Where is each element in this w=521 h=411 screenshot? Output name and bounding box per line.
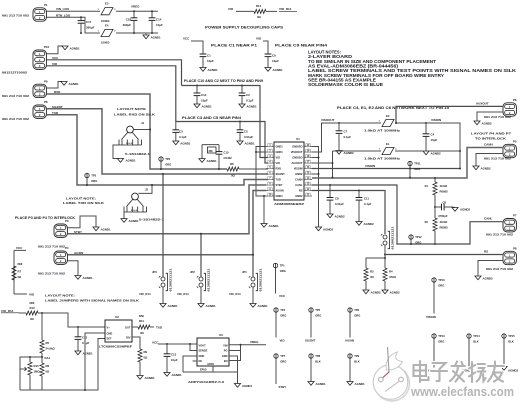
svg-text:AUXOUT: AUXOUT bbox=[476, 101, 489, 105]
wire bbox=[384, 281, 386, 290]
svg-text:GND: GND bbox=[199, 354, 205, 358]
ground AGND2 bbox=[363, 290, 369, 294]
svg-text:VISOIN: VISOIN bbox=[426, 315, 436, 319]
pin 13 U1 bbox=[304, 184, 312, 186]
svg-text:PLACE C10 AND C2 NEXT TO PIN2: PLACE C10 AND C2 NEXT TO PIN2 AND PIN9 bbox=[184, 79, 263, 83]
svg-text:GNDISO: GNDISO bbox=[292, 156, 302, 160]
svg-text:OUT: OUT bbox=[125, 325, 131, 329]
svg-text:AGND2: AGND2 bbox=[481, 166, 492, 170]
svg-text:POWER SUPPLY DECOUPLING CAPS: POWER SUPPLY DECOUPLING CAPS bbox=[205, 26, 284, 30]
ground AGND1 bbox=[250, 304, 256, 308]
svg-text:0.1μF: 0.1μF bbox=[364, 202, 372, 206]
test point TP14 bbox=[467, 334, 471, 338]
svg-text:5-1814832-1: 5-1814832-1 bbox=[125, 152, 151, 156]
wire bbox=[19, 312, 26, 314]
svg-text:VIO_R14: VIO_R14 bbox=[1, 309, 14, 313]
svg-text:P10: P10 bbox=[44, 45, 50, 49]
wire bbox=[47, 10, 101, 12]
svg-text:691 213 710 002: 691 213 710 002 bbox=[2, 13, 30, 17]
svg-text:C17: C17 bbox=[86, 20, 92, 24]
svg-text:PG: PG bbox=[224, 349, 228, 353]
wire RS to P8 bbox=[385, 254, 503, 256]
ground AGND2 bbox=[336, 151, 342, 155]
ground AGND1 bbox=[198, 304, 204, 308]
svg-text:691 213 710 002: 691 213 710 002 bbox=[484, 157, 512, 161]
ferrite bead E3 bbox=[101, 8, 113, 15]
svg-text:ORG: ORG bbox=[354, 314, 360, 318]
wire bbox=[150, 326, 154, 328]
ground AGND1 bbox=[261, 224, 267, 228]
test point TP3 bbox=[85, 173, 89, 177]
capacitor C17 bbox=[80, 17, 82, 20]
svg-text:BLK: BLK bbox=[315, 360, 321, 364]
svg-text:AGND2: AGND2 bbox=[431, 151, 442, 155]
svg-text:AUXOUT: AUXOUT bbox=[292, 161, 303, 165]
watermark CJK text bbox=[414, 361, 505, 382]
svg-text:JP3: JP3 bbox=[152, 270, 157, 274]
svg-text:VIN: VIN bbox=[223, 343, 227, 347]
watermark logo bbox=[373, 347, 409, 401]
test point TP4 bbox=[274, 308, 278, 312]
svg-text:DA1: DA1 bbox=[45, 356, 51, 360]
svg-text:ORG: ORG bbox=[280, 360, 286, 364]
connector P3 bbox=[54, 224, 67, 237]
svg-text:P5: P5 bbox=[513, 140, 517, 144]
wire bbox=[139, 362, 141, 376]
svg-text:AGND1: AGND1 bbox=[316, 382, 327, 386]
svg-text:VREG: VREG bbox=[250, 340, 259, 344]
connector P9 bbox=[33, 84, 46, 97]
svg-text:TP8: TP8 bbox=[315, 354, 320, 358]
svg-text:ORG: ORG bbox=[438, 340, 444, 344]
capacitor C5 bbox=[239, 121, 241, 123]
svg-text:61300211121: 61300211121 bbox=[208, 268, 211, 292]
ferrite bead E4 bbox=[101, 29, 113, 36]
wire bbox=[14, 293, 27, 295]
wire DIV pin bbox=[132, 337, 140, 349]
svg-text:U3: U3 bbox=[219, 333, 223, 337]
test point TP1 bbox=[273, 263, 277, 267]
svg-text:VIO_R14: VIO_R14 bbox=[229, 292, 241, 296]
pin 4 U1 bbox=[266, 162, 274, 164]
wire VISOIN rail bbox=[395, 123, 460, 169]
pin 11 U1 bbox=[304, 195, 312, 197]
svg-text:E4: E4 bbox=[105, 24, 109, 28]
pin 19 U1 bbox=[304, 151, 312, 153]
svg-text:VIO: VIO bbox=[276, 161, 280, 165]
ground AGND1 bbox=[234, 384, 240, 388]
svg-text:0.1μF: 0.1μF bbox=[344, 135, 352, 139]
svg-text:49.9Ω: 49.9Ω bbox=[440, 220, 448, 224]
svg-text:AGND1: AGND1 bbox=[247, 104, 258, 108]
svg-text:R9: R9 bbox=[144, 350, 148, 354]
resistor R2 bbox=[433, 218, 437, 231]
svg-text:CANH: CANH bbox=[484, 142, 493, 146]
test point TP6 bbox=[348, 308, 352, 312]
svg-text:C10: C10 bbox=[201, 93, 207, 97]
pin 12 U1 bbox=[304, 190, 312, 192]
resistor R5 bbox=[41, 313, 43, 340]
svg-text:U1: U1 bbox=[296, 137, 300, 141]
wire to ground bbox=[68, 261, 79, 276]
svg-text:C11: C11 bbox=[364, 196, 369, 200]
wire NC stub bbox=[193, 360, 198, 362]
svg-text:R14: R14 bbox=[256, 4, 262, 8]
resistor R7 bbox=[12, 266, 16, 280]
ground AGND1 bbox=[62, 46, 68, 50]
svg-text:VOUT: VOUT bbox=[199, 343, 207, 347]
svg-text:LAYOUT NOTE: LAYOUT NOTE bbox=[117, 107, 146, 111]
wire bbox=[384, 245, 386, 268]
wire bbox=[202, 144, 219, 146]
svg-text:10μF: 10μF bbox=[431, 138, 438, 142]
svg-text:ORG: ORG bbox=[415, 241, 421, 245]
svg-text:VIN_LDO: VIN_LDO bbox=[56, 7, 70, 11]
svg-text:VIO: VIO bbox=[228, 7, 234, 11]
ground AGND2 bbox=[473, 166, 479, 170]
wire bbox=[160, 161, 162, 169]
svg-text:10μF: 10μF bbox=[171, 358, 178, 362]
wire AUXIN bbox=[68, 191, 267, 255]
wire bbox=[113, 145, 119, 159]
svg-text:0.1μF: 0.1μF bbox=[82, 341, 90, 345]
pin 1 U1 bbox=[266, 146, 274, 148]
svg-text:691 213 710 002: 691 213 710 002 bbox=[2, 94, 30, 98]
wire CANL bbox=[312, 185, 503, 244]
svg-text:AUXIN: AUXIN bbox=[345, 338, 354, 342]
wire bbox=[434, 195, 436, 218]
svg-text:TXD: TXD bbox=[276, 178, 281, 182]
pin 6 U1 bbox=[266, 173, 274, 175]
ground AGND2 bbox=[474, 121, 480, 125]
svg-text:GND1: GND1 bbox=[276, 145, 284, 149]
capacitor C11 bbox=[358, 190, 360, 192]
wire CANH bus bbox=[312, 148, 503, 179]
wire bbox=[365, 281, 367, 290]
wire EPAD bbox=[212, 366, 214, 372]
svg-text:1.0kΩ AT 100MHz: 1.0kΩ AT 100MHz bbox=[364, 157, 401, 161]
jumper JP1 bbox=[252, 255, 254, 277]
svg-text:TP2: TP2 bbox=[165, 157, 170, 161]
svg-text:VISOOUT: VISOOUT bbox=[291, 150, 303, 154]
svg-text:C3: C3 bbox=[179, 129, 183, 133]
svg-text:R2: R2 bbox=[425, 220, 429, 224]
svg-text:R7: R7 bbox=[18, 270, 22, 274]
ground AGND1 bbox=[61, 82, 67, 86]
svg-text:ORG: ORG bbox=[280, 314, 286, 318]
svg-text:VIO_R14: VIO_R14 bbox=[139, 292, 151, 296]
svg-text:JP2: JP2 bbox=[190, 270, 195, 274]
wire J1 tap to RXD bbox=[133, 129, 150, 131]
svg-text:61300211121: 61300211121 bbox=[392, 226, 395, 250]
wire bbox=[252, 287, 254, 304]
capacitor C14 bbox=[151, 11, 153, 18]
svg-text:GNDISO: GNDISO bbox=[292, 145, 302, 149]
connector P4 bbox=[54, 251, 67, 264]
svg-text:VISOIN: VISOIN bbox=[365, 164, 375, 168]
pin 18 U1 bbox=[304, 157, 312, 159]
svg-text:49.9Ω: 49.9Ω bbox=[440, 184, 448, 188]
svg-text:R0805: R0805 bbox=[440, 225, 449, 229]
ground AGND1 bbox=[93, 227, 99, 231]
wire bbox=[410, 239, 412, 244]
pin 15 U1 bbox=[304, 173, 312, 175]
wire bbox=[275, 268, 277, 294]
svg-text:AGND1: AGND1 bbox=[83, 276, 94, 280]
pin 16 U1 bbox=[304, 168, 312, 170]
ground AGND1 bbox=[164, 373, 170, 377]
svg-text:691 213 710 002: 691 213 710 002 bbox=[486, 267, 514, 271]
svg-text:VIO: VIO bbox=[256, 37, 262, 41]
svg-text:TP7: TP7 bbox=[280, 354, 285, 358]
capacitor C3 bbox=[175, 122, 177, 130]
svg-text:www.elecfans.com: www.elecfans.com bbox=[410, 384, 514, 399]
ground AGND1 bbox=[200, 68, 206, 72]
svg-text:GND1: GND1 bbox=[276, 194, 284, 198]
svg-text:J2: J2 bbox=[145, 188, 149, 192]
wire PG EN tie bbox=[229, 350, 241, 352]
svg-text:C0402: C0402 bbox=[224, 156, 233, 160]
svg-text:DNI: DNI bbox=[18, 262, 23, 266]
wire bbox=[434, 231, 436, 244]
ground AGND1 bbox=[121, 219, 127, 223]
wire to ground bbox=[47, 46, 64, 54]
svg-text:BLK: BLK bbox=[508, 340, 514, 344]
svg-text:10μF: 10μF bbox=[207, 59, 214, 63]
svg-text:RXD: RXD bbox=[276, 167, 282, 171]
wire bbox=[14, 249, 26, 251]
svg-text:TP12: TP12 bbox=[415, 235, 422, 239]
svg-text:0.01μF: 0.01μF bbox=[244, 135, 253, 139]
svg-text:U2: U2 bbox=[115, 315, 119, 319]
svg-text:AGND1: AGND1 bbox=[269, 224, 280, 228]
pin 2 U1 bbox=[266, 151, 274, 153]
wire VISOIN to pin16 bbox=[312, 168, 460, 170]
capacitor C9 bbox=[265, 53, 272, 55]
wire bottom rail bbox=[20, 339, 105, 391]
connector P8 bbox=[33, 105, 46, 118]
svg-text:TXD: TXD bbox=[156, 326, 163, 330]
ground AGND1 bbox=[75, 351, 81, 355]
svg-text:EPAD: EPAD bbox=[208, 363, 215, 366]
connector P5 bbox=[503, 144, 516, 157]
svg-text:GND2: GND2 bbox=[295, 194, 303, 198]
wire bbox=[266, 10, 277, 12]
pin 3 U1 bbox=[266, 157, 274, 159]
svg-text:5-1814832-1: 5-1814832-1 bbox=[139, 217, 165, 221]
svg-text:R12: R12 bbox=[30, 306, 36, 310]
resistor R11 bbox=[132, 326, 138, 328]
svg-text:24.9kΩ: 24.9kΩ bbox=[46, 347, 56, 351]
svg-text:TP5: TP5 bbox=[315, 308, 320, 312]
svg-text:1.0kΩ AT 100MHz: 1.0kΩ AT 100MHz bbox=[364, 129, 401, 133]
svg-text:R1: R1 bbox=[425, 184, 429, 188]
ground AGND1 bbox=[239, 104, 245, 108]
test point TP5 bbox=[309, 308, 313, 312]
svg-text:AGND1: AGND1 bbox=[202, 104, 213, 108]
ground AGND1 bbox=[265, 68, 271, 72]
test point TP10 bbox=[432, 278, 436, 282]
svg-text:TP1: TP1 bbox=[280, 264, 285, 268]
svg-text:TP11: TP11 bbox=[414, 162, 421, 166]
resistor R4 bbox=[383, 268, 387, 281]
svg-text:R5: R5 bbox=[46, 341, 50, 345]
svg-text:1500Ω: 1500Ω bbox=[101, 41, 110, 45]
svg-text:C18: C18 bbox=[126, 17, 132, 21]
svg-text:AGND1: AGND1 bbox=[172, 373, 183, 377]
ground AGND1 bbox=[173, 141, 179, 145]
svg-text:R4: R4 bbox=[389, 270, 393, 274]
svg-text:DIV: DIV bbox=[126, 335, 131, 339]
svg-text:P7: P7 bbox=[513, 214, 517, 218]
wire VISOOUT riser bbox=[312, 123, 381, 152]
resistor R9 bbox=[138, 349, 142, 362]
svg-text:AGND2: AGND2 bbox=[460, 208, 471, 212]
ground AGND1 bbox=[194, 104, 200, 108]
svg-text:C13: C13 bbox=[171, 352, 177, 356]
svg-text:ORG: ORG bbox=[91, 179, 97, 183]
svg-text:TP9: TP9 bbox=[354, 354, 359, 358]
svg-text:C7: C7 bbox=[344, 129, 348, 133]
svg-text:VISOOUT: VISOOUT bbox=[321, 118, 335, 122]
capacitor C6 bbox=[434, 206, 436, 208]
svg-text:AGND1: AGND1 bbox=[70, 46, 81, 50]
pin 20 U1 bbox=[304, 146, 312, 148]
svg-text:VIO_R14: VIO_R14 bbox=[279, 7, 292, 11]
wire GND left bbox=[183, 356, 197, 372]
svg-text:CANH: CANH bbox=[295, 178, 303, 182]
capacitor C10 bbox=[196, 85, 198, 87]
svg-text:STBY: STBY bbox=[279, 385, 287, 389]
svg-text:AGND1: AGND1 bbox=[126, 159, 137, 163]
wire pin17 link bbox=[312, 162, 333, 164]
connector P1 bbox=[33, 8, 46, 21]
svg-text:R6: R6 bbox=[230, 162, 234, 166]
svg-text:61300211121: 61300211121 bbox=[260, 268, 263, 292]
svg-text:TP3: TP3 bbox=[91, 174, 96, 178]
wire bbox=[409, 166, 411, 178]
svg-text:E1: E1 bbox=[386, 142, 390, 146]
svg-text:P8: P8 bbox=[513, 247, 517, 251]
svg-text:AGND1: AGND1 bbox=[151, 35, 162, 39]
svg-text:AGND2: AGND2 bbox=[323, 227, 334, 231]
svg-text:C6: C6 bbox=[443, 201, 447, 205]
ground AGND2 bbox=[327, 214, 333, 218]
svg-text:LABEL RXD ON SILK: LABEL RXD ON SILK bbox=[114, 112, 156, 116]
wire to ground bbox=[478, 261, 503, 277]
svg-text:2 3 4 5: 2 3 4 5 bbox=[126, 142, 133, 145]
wire RS bbox=[312, 191, 385, 235]
ferrite bead E1 bbox=[333, 150, 382, 152]
svg-text:R0805: R0805 bbox=[440, 189, 449, 193]
svg-text:C14: C14 bbox=[156, 17, 162, 21]
wire bbox=[86, 178, 88, 185]
wire TXD bbox=[47, 115, 269, 185]
svg-text:AGND1: AGND1 bbox=[207, 159, 218, 163]
svg-text:TP14: TP14 bbox=[473, 334, 480, 338]
wire bbox=[263, 41, 268, 54]
resistor R14 bbox=[254, 9, 266, 13]
svg-text:C2: C2 bbox=[246, 93, 250, 97]
svg-text:LABEL TXD ON SILK: LABEL TXD ON SILK bbox=[63, 201, 105, 205]
svg-text:AGND1: AGND1 bbox=[258, 304, 269, 308]
svg-text:AGND1: AGND1 bbox=[129, 219, 140, 223]
svg-text:AGND1: AGND1 bbox=[208, 68, 219, 72]
svg-text:AGND1: AGND1 bbox=[245, 141, 256, 145]
pin 9 U1 bbox=[266, 190, 274, 192]
svg-text:P1: P1 bbox=[44, 3, 48, 7]
svg-text:691 213 710 002: 691 213 710 002 bbox=[484, 115, 512, 119]
svg-text:R8: R8 bbox=[46, 364, 50, 368]
svg-text:10μF: 10μF bbox=[201, 99, 208, 103]
wire SILENT bbox=[47, 109, 269, 174]
svg-text:TO INTERLOCK: TO INTERLOCK bbox=[475, 136, 507, 140]
svg-text:C4: C4 bbox=[431, 132, 435, 136]
ground AGND2 bbox=[423, 151, 429, 155]
svg-text:AGND1: AGND1 bbox=[168, 304, 179, 308]
jumper JP3 bbox=[162, 174, 164, 277]
svg-text:TP6: TP6 bbox=[354, 308, 359, 312]
pin 5 U1 bbox=[266, 168, 274, 170]
ground AGND1 bbox=[137, 376, 143, 380]
svg-text:LAYOUT NOTE:: LAYOUT NOTE: bbox=[66, 196, 96, 200]
capacitor C12 bbox=[77, 326, 79, 328]
wire bbox=[200, 287, 202, 304]
wire VCC bbox=[47, 60, 182, 86]
resistor R3 bbox=[364, 268, 368, 281]
wire to ground bbox=[477, 112, 503, 121]
svg-text:LAYOUT NOTE:: LAYOUT NOTE: bbox=[45, 293, 75, 297]
svg-text:VISOIN: VISOIN bbox=[431, 118, 441, 122]
svg-text:4700pF: 4700pF bbox=[438, 214, 448, 218]
svg-text:TP10: TP10 bbox=[438, 278, 445, 282]
svg-text:R3: R3 bbox=[370, 270, 374, 274]
wire E1 left riser bbox=[332, 151, 334, 178]
svg-text:VIO_R14: VIO_R14 bbox=[177, 292, 189, 296]
svg-text:GND2: GND2 bbox=[295, 172, 303, 176]
test point TP12 bbox=[409, 235, 413, 239]
wire GND right bbox=[229, 356, 238, 372]
wire bbox=[41, 376, 43, 390]
ground AGND1 bbox=[145, 33, 147, 35]
capacitor C4 bbox=[425, 122, 427, 124]
svg-text:SILENT: SILENT bbox=[276, 172, 286, 176]
wire SENSE bbox=[190, 344, 197, 351]
wire RXD bbox=[47, 94, 228, 169]
svg-text:VCC: VCC bbox=[183, 37, 190, 41]
pin 17 U1 bbox=[304, 162, 312, 164]
wire VREG rail bbox=[116, 10, 158, 12]
svg-text:VISOIN: VISOIN bbox=[294, 167, 303, 171]
svg-text:AGND1: AGND1 bbox=[206, 304, 217, 308]
capacitor C8 bbox=[329, 184, 331, 186]
svg-text:P9: P9 bbox=[44, 79, 48, 83]
ground AGND2 bbox=[382, 290, 388, 294]
svg-text:TP4: TP4 bbox=[280, 308, 285, 312]
test point TP13 bbox=[432, 334, 436, 338]
ferrite bead E2 bbox=[382, 119, 394, 126]
svg-text:691 213 710 002: 691 213 710 002 bbox=[486, 232, 514, 236]
connector P10 bbox=[33, 50, 46, 69]
svg-text:R11: R11 bbox=[139, 319, 144, 323]
ground AGND1 bbox=[160, 304, 166, 308]
svg-text:AGND1: AGND1 bbox=[83, 351, 94, 355]
svg-text:GND1: GND1 bbox=[276, 150, 284, 154]
pin 10 U1 bbox=[266, 195, 274, 197]
svg-text:AGND2: AGND2 bbox=[483, 276, 494, 280]
test point TP8 bbox=[309, 354, 313, 358]
wire to ground bbox=[68, 216, 97, 228]
